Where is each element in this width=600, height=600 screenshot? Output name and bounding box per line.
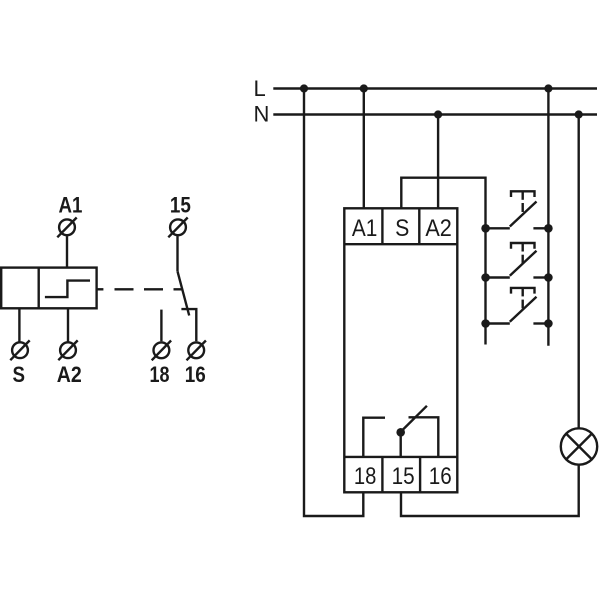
push button S3 contact — [486, 297, 549, 324]
relay coil box — [1, 268, 96, 309]
push button S1 contact — [486, 202, 549, 229]
svg-text:S: S — [13, 362, 26, 387]
svg-text:16: 16 — [185, 362, 206, 387]
push button S2 contact — [486, 251, 549, 278]
terminal A2 — [58, 340, 77, 360]
svg-text:15: 15 — [170, 193, 191, 218]
internal contact: lead 16 — [409, 417, 439, 457]
svg-text:A1: A1 — [59, 193, 83, 218]
wire S route / button left rail — [401, 178, 485, 345]
line L — [273, 87, 597, 89]
junction S1 right — [544, 224, 553, 233]
wire L to A1 — [363, 89, 365, 210]
internal contact: lead 18 — [363, 418, 385, 457]
terminal S — [10, 340, 29, 360]
svg-text:S: S — [395, 215, 409, 242]
push button S3 actuator — [511, 288, 535, 309]
svg-text:A2: A2 — [57, 362, 82, 387]
wire button right rail — [547, 89, 549, 346]
wire L down to terminal 18 — [304, 89, 363, 517]
line N — [273, 113, 597, 115]
wire 15 to contact — [176, 236, 178, 271]
svg-text:A2: A2 — [425, 215, 452, 242]
junction L to A1 — [360, 84, 368, 92]
svg-text:16: 16 — [429, 463, 452, 490]
push button S1 actuator — [511, 191, 535, 212]
terminal 15 — [168, 218, 187, 238]
push button S2 actuator — [511, 243, 535, 263]
svg-text:N: N — [254, 101, 270, 126]
wire N to lamp — [578, 115, 580, 429]
fixed contact 18 stub — [160, 310, 162, 342]
terminal 16 — [187, 341, 206, 361]
svg-text:18: 18 — [354, 463, 377, 490]
wire N to A2 — [437, 115, 439, 210]
relay device box — [344, 208, 457, 492]
junction S3 left — [481, 319, 490, 328]
junction L to buttons — [544, 84, 552, 92]
lamp — [561, 428, 597, 464]
svg-text:L: L — [254, 76, 266, 101]
wire A2 to coil — [67, 308, 69, 341]
svg-text:18: 18 — [150, 362, 170, 387]
junction L left — [300, 84, 308, 92]
terminal 18 — [152, 341, 171, 361]
svg-text:15: 15 — [392, 463, 415, 490]
junction S2 right — [544, 273, 553, 282]
internal contact: pivot — [396, 428, 405, 437]
fixed contact 16 hook — [181, 309, 196, 341]
contact arm 15 — [178, 271, 190, 315]
step-function symbol — [45, 281, 90, 298]
junction N to lamp — [575, 110, 583, 118]
wire lamp to terminal 15 — [401, 465, 579, 516]
junction S3 right — [544, 319, 553, 328]
junction S2 left — [481, 273, 490, 282]
wire A1 to coil — [66, 236, 68, 268]
dashed mechanical link — [97, 288, 183, 290]
internal contact: lead 15 — [400, 434, 402, 457]
junction N to A2 — [434, 110, 442, 118]
wire S to coil — [18, 308, 20, 341]
junction S1 left — [481, 224, 490, 233]
svg-text:A1: A1 — [352, 215, 378, 242]
terminal A1 — [57, 218, 76, 238]
internal contact: arm — [402, 406, 427, 431]
